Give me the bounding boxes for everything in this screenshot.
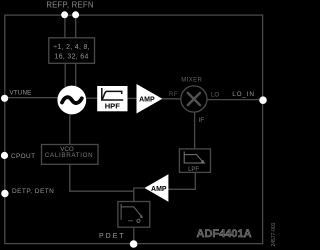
svg-text:24577-001: 24577-001 (271, 222, 276, 246)
svg-text:÷1, 2, 4, 8,: ÷1, 2, 4, 8, (53, 44, 90, 51)
svg-text:16, 32, 64: 16, 32, 64 (55, 53, 89, 60)
svg-text:LPF: LPF (188, 167, 199, 173)
svg-text:RF: RF (169, 92, 178, 98)
svg-text:LO: LO (211, 93, 219, 99)
svg-text:CPOUT: CPOUT (11, 153, 35, 160)
svg-text:AMP: AMP (139, 97, 155, 104)
svg-text:IF: IF (199, 117, 205, 124)
svg-text:REFP, REFN: REFP, REFN (46, 1, 93, 10)
svg-text:DETP, DETN: DETP, DETN (12, 188, 54, 195)
svg-text:LO_IN: LO_IN (232, 91, 254, 98)
svg-text:CALIBRATION: CALIBRATION (45, 152, 94, 159)
svg-text:HPF: HPF (105, 102, 121, 111)
svg-text:ADF4401A: ADF4401A (197, 228, 252, 240)
svg-text:AMP: AMP (151, 186, 167, 193)
svg-text:PDET: PDET (99, 233, 126, 240)
svg-text:VTUNE: VTUNE (10, 90, 32, 97)
svg-text:MIXER: MIXER (181, 77, 202, 83)
